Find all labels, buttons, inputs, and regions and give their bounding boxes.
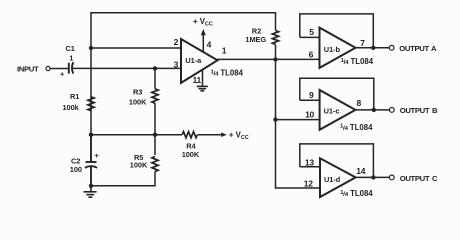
svg-text:U1-a: U1-a	[185, 56, 202, 65]
svg-text:3: 3	[174, 59, 179, 69]
node INPUT terminal	[46, 66, 50, 70]
wire R5 top to mid rail	[154, 135, 156, 155]
svg-text:INPUT: INPUT	[17, 64, 39, 73]
node junction C2 bottom / bottom rail	[89, 184, 93, 188]
wire U1-b pin5	[300, 36, 320, 38]
svg-text:+ VCC: + VCC	[229, 130, 249, 141]
wire U1-a output to U1-b pin6	[217, 58, 320, 60]
node junction R3 top	[153, 66, 157, 70]
svg-text:13: 13	[305, 158, 314, 168]
resistor R5	[152, 157, 158, 172]
power +Vcc arrow right	[221, 132, 227, 137]
svg-text:U1-d: U1-d	[324, 175, 341, 184]
node junction U1-b output	[371, 46, 375, 50]
svg-text:12: 12	[304, 178, 313, 188]
svg-text:+: +	[95, 151, 100, 160]
node junction R1 bottom / mid rail	[89, 133, 93, 137]
svg-text:1/4TL084: 1/4TL084	[340, 189, 373, 198]
wire mid rail	[91, 134, 182, 136]
wire R2 bottom to output node	[275, 44, 277, 59]
wire pin2 branch	[91, 47, 181, 49]
capacitor C2	[85, 135, 97, 186]
wire U1-c feedback loop	[300, 78, 374, 110]
svg-text:100: 100	[70, 165, 82, 174]
wire U1-b feedback loop	[300, 14, 374, 48]
ground below C2	[84, 186, 97, 197]
wire U1-c output	[355, 109, 389, 111]
node OUTPUT A terminal	[389, 45, 394, 50]
svg-text:8: 8	[357, 98, 362, 108]
svg-text:1MEG: 1MEG	[245, 35, 266, 44]
node junction pin2/feedback	[89, 46, 93, 50]
svg-text:+: +	[60, 70, 65, 79]
svg-text:100K: 100K	[129, 98, 147, 107]
svg-text:+ VCC: + VCC	[193, 17, 213, 28]
wire distribution vertical	[276, 59, 321, 188]
wire to U1-c pin10	[276, 119, 320, 121]
svg-text:R1: R1	[70, 92, 79, 101]
svg-text:100K: 100K	[182, 150, 200, 159]
wire U1-b output	[356, 47, 389, 49]
node junction R3/R5/mid rail	[153, 133, 157, 137]
svg-text:OUTPUTB: OUTPUTB	[400, 106, 438, 115]
svg-text:6: 6	[309, 49, 314, 59]
svg-text:14: 14	[356, 166, 365, 176]
svg-text:R3: R3	[133, 88, 142, 97]
ground U1-a pin 11	[197, 86, 208, 90]
node junction U1-c output	[372, 108, 376, 112]
wire top rail feedback	[91, 13, 276, 135]
svg-text:5: 5	[309, 27, 314, 37]
svg-text:C1: C1	[66, 44, 75, 53]
resistor R2	[272, 31, 278, 45]
svg-text:OUTPUTA: OUTPUTA	[399, 44, 437, 53]
node OUTPUT B terminal	[389, 108, 394, 113]
capacitor C1	[69, 62, 74, 73]
svg-text:100k: 100k	[63, 103, 80, 112]
wire U1-d output	[356, 176, 390, 178]
svg-text:1: 1	[222, 46, 227, 56]
pin 11 ground stem	[202, 69, 204, 86]
resistor R4	[182, 132, 197, 138]
svg-text:U1-c: U1-c	[324, 107, 340, 116]
svg-text:2: 2	[174, 37, 179, 47]
node junction pin10 branch	[273, 117, 277, 121]
op-amp U1-d	[320, 158, 356, 197]
wire U1-d feedback loop	[300, 144, 374, 178]
svg-text:9: 9	[309, 90, 314, 100]
svg-text:1: 1	[69, 54, 73, 63]
wire bottom rail	[91, 172, 155, 186]
wire R4 to +Vcc arrow	[198, 134, 222, 136]
wire U1-d pin13	[300, 166, 320, 168]
op-amp U1-c	[320, 90, 356, 130]
node junction output/R2	[273, 57, 277, 61]
op-amp U1-b	[320, 28, 356, 68]
wire C1 to pin3 of U1-a	[72, 67, 181, 69]
wire input to C1	[50, 68, 68, 70]
svg-text:4: 4	[207, 39, 212, 49]
svg-text:1/4TL084: 1/4TL084	[211, 69, 244, 78]
resistor R3	[152, 68, 158, 134]
op-amp U1-a	[181, 39, 218, 83]
svg-text:1/4TL084: 1/4TL084	[340, 123, 373, 132]
resistor R1	[88, 97, 94, 111]
svg-text:100K: 100K	[130, 160, 148, 169]
svg-text:OUTPUTC: OUTPUTC	[400, 174, 438, 183]
svg-text:1/4TL084: 1/4TL084	[341, 57, 374, 66]
power pin4 arrow up to +Vcc	[201, 29, 206, 53]
svg-text:10: 10	[305, 109, 314, 119]
svg-text:11: 11	[193, 75, 202, 85]
node OUTPUT C terminal	[389, 175, 394, 180]
wire U1-c pin9	[300, 99, 320, 101]
node junction U1-d output	[371, 175, 375, 179]
svg-text:U1-b: U1-b	[324, 45, 341, 54]
svg-text:7: 7	[360, 38, 365, 48]
